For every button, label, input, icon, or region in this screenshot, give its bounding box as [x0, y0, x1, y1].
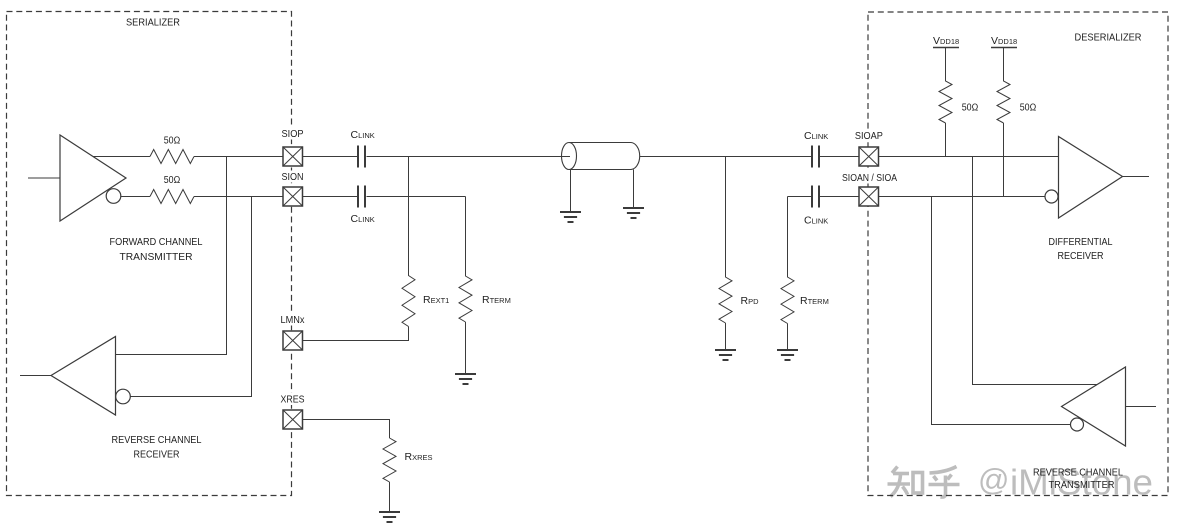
inverting bubble reverse receiver — [116, 389, 131, 404]
wire 50ohm to SIOP — [194, 156, 283, 158]
svg-text:@: @ — [978, 462, 1009, 497]
pad XRES — [283, 410, 303, 429]
pad SIOP — [283, 147, 303, 166]
capacitor Clink N left — [358, 186, 365, 208]
wire XRES to Rxres — [303, 420, 390, 439]
watermark stroke group 知 — [888, 467, 923, 497]
label LMNx — [277, 314, 308, 327]
svg-text:50Ω: 50Ω — [962, 101, 979, 113]
wire reverse TX input — [1126, 406, 1157, 408]
wire Rterm to Clink N — [788, 196, 812, 198]
wire Clink to cable — [367, 156, 571, 158]
label XRES — [278, 393, 307, 405]
svg-text:CLINK: CLINK — [804, 130, 828, 142]
resistor 50ohm pullup right — [997, 48, 1010, 197]
resistor Rext1 — [303, 157, 416, 341]
supply bar Vdd18 left — [933, 47, 959, 49]
svg-text:RECEIVER: RECEIVER — [134, 449, 180, 461]
wire Clink to SIOAP — [820, 156, 859, 158]
ground Rpd — [715, 350, 736, 360]
svg-text:50Ω: 50Ω — [164, 134, 181, 146]
svg-text:CLINK: CLINK — [804, 215, 828, 227]
svg-text:RPD: RPD — [741, 295, 760, 307]
svg-text:VDD18: VDD18 — [991, 35, 1017, 47]
resistor Rxres — [383, 438, 396, 512]
wire cable shield ground stub right — [633, 170, 635, 209]
wire SION to Clink — [303, 196, 358, 198]
svg-text:TRANSMITTER: TRANSMITTER — [120, 251, 193, 263]
wire N line to Rterm corner — [367, 196, 466, 198]
svg-text:RECEIVER: RECEIVER — [1058, 250, 1104, 262]
resistor 50ohm N — [150, 190, 194, 204]
ground Rterm left — [455, 374, 476, 384]
inverting bubble reverse TX — [1071, 418, 1084, 431]
op-amp reverse channel receiver — [51, 337, 116, 416]
resistor Rterm right — [781, 197, 794, 351]
coax cable shield — [562, 143, 640, 170]
wire SIOAN to diff receiver bubble — [879, 196, 1046, 198]
wire cable shield ground stub left — [570, 170, 572, 213]
capacitor Clink P left — [358, 146, 365, 168]
ground Rxres — [379, 512, 400, 522]
op-amp reverse channel transmitter — [1062, 367, 1126, 446]
label SIOAN / SIOA — [839, 172, 901, 184]
capacitor Clink P right — [812, 146, 819, 168]
wire SIOP to Clink — [303, 156, 358, 158]
pad SION — [283, 187, 303, 206]
svg-text:XRES: XRES — [281, 393, 305, 405]
svg-text:CLINK: CLINK — [351, 213, 375, 225]
label SIOAP — [852, 130, 886, 143]
op-amp forward channel transmitter — [60, 135, 126, 221]
wire reverse receiver output — [20, 375, 51, 377]
inverting bubble forward TX — [106, 189, 121, 204]
resistor 50ohm pullup left — [939, 48, 952, 157]
resistor 50ohm P — [150, 150, 194, 164]
wire P tap to reverse TX output — [973, 157, 1099, 385]
wire forward TX output N — [121, 196, 150, 198]
wire forward TX output P — [93, 156, 150, 158]
resistor Rpd — [719, 157, 732, 351]
serializer block dashed border — [7, 12, 292, 496]
label SIOP — [278, 128, 307, 141]
ground cable left — [560, 212, 581, 222]
svg-text:SIOAP: SIOAP — [855, 130, 883, 142]
svg-text:LMNx: LMNx — [281, 314, 306, 326]
wire P tap to reverse receiver input — [116, 157, 227, 355]
wire Clink to SIOAN — [820, 196, 859, 198]
svg-text:CLINK: CLINK — [351, 129, 375, 141]
wire N tap to reverse receiver bubble — [130, 197, 251, 397]
svg-text:TRANSMITTER: TRANSMITTER — [1049, 479, 1115, 491]
resistor Rterm left — [459, 197, 472, 375]
svg-text:DESERIALIZER: DESERIALIZER — [1075, 32, 1142, 44]
svg-text:RTERM: RTERM — [482, 294, 511, 306]
wire diff receiver output — [1123, 176, 1150, 178]
svg-text:REXT1: REXT1 — [423, 294, 449, 306]
svg-text:SERIALIZER: SERIALIZER — [126, 17, 180, 29]
svg-text:SIOAN / SIOA: SIOAN / SIOA — [842, 172, 897, 184]
wire N tap to reverse TX bubble — [932, 197, 1071, 425]
pad SIOAN — [859, 187, 879, 206]
op-amp differential receiver — [1059, 137, 1123, 219]
capacitor Clink N right — [812, 186, 819, 208]
ground Rterm right — [777, 350, 798, 360]
inverting bubble diff receiver — [1045, 190, 1058, 203]
svg-text:DIFFERENTIAL: DIFFERENTIAL — [1049, 236, 1113, 248]
svg-text:VDD18: VDD18 — [933, 35, 959, 47]
svg-text:REVERSE CHANNEL: REVERSE CHANNEL — [112, 434, 202, 446]
svg-text:REVERSE CHANNEL: REVERSE CHANNEL — [1033, 467, 1123, 479]
label SION — [278, 171, 307, 184]
svg-text:RTERM: RTERM — [800, 295, 829, 307]
svg-text:SION: SION — [282, 171, 304, 183]
svg-text:RXRES: RXRES — [405, 451, 433, 463]
pad LMNx — [283, 331, 303, 350]
wire input forward TX — [28, 177, 60, 179]
pad SIOAP — [859, 147, 879, 166]
deserializer block dashed border — [868, 12, 1168, 496]
supply bar Vdd18 right — [991, 47, 1017, 49]
svg-text:50Ω: 50Ω — [164, 174, 181, 186]
ground cable right — [623, 208, 644, 218]
wire cable to right section — [640, 156, 812, 158]
wire SIOAP to diff receiver — [879, 156, 1059, 158]
wire 50ohm to SION — [194, 196, 283, 198]
watermark stroke group 乎 — [929, 467, 960, 498]
svg-text:SIOP: SIOP — [282, 128, 304, 140]
svg-text:50Ω: 50Ω — [1020, 101, 1037, 113]
svg-text:FORWARD CHANNEL: FORWARD CHANNEL — [110, 236, 203, 248]
